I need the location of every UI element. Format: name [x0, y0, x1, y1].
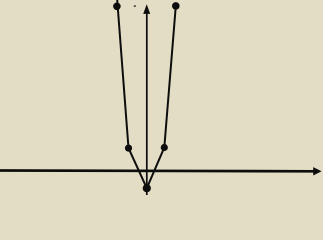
stray speck dot	[134, 5, 136, 6]
data point top-left	[113, 3, 121, 11]
data point top-right	[172, 2, 180, 10]
x-axis arrowhead	[313, 167, 321, 175]
curve: piecewise linear graph	[117, 0, 176, 188]
x-axis	[0, 169, 315, 173]
data point mid-left	[125, 145, 132, 152]
y-axis arrowhead	[143, 4, 150, 14]
y-axis	[146, 11, 148, 195]
data point vertex	[143, 184, 151, 192]
data point mid-right	[161, 144, 168, 151]
